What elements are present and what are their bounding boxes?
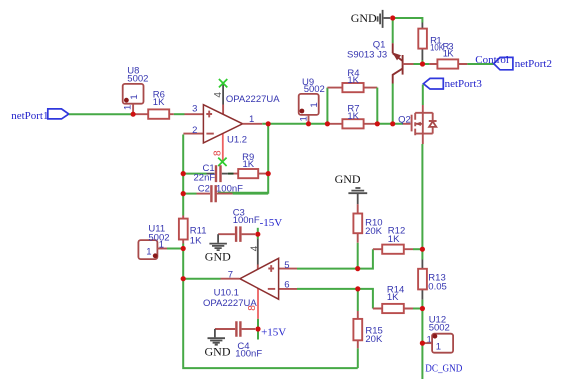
ground GND bottom (C4) — [205, 329, 231, 359]
test point U9 — [299, 77, 325, 122]
junction C1 left node — [181, 171, 186, 176]
svg-text:1K: 1K — [388, 234, 400, 245]
svg-text:Control: Control — [475, 54, 509, 66]
svg-text:5002: 5002 — [304, 84, 325, 95]
junction C3 -15V node — [255, 232, 260, 237]
svg-text:+15V: +15V — [261, 327, 286, 339]
ground GND top-left — [351, 10, 390, 28]
svg-text:-15V: -15V — [260, 217, 283, 229]
svg-text:20K: 20K — [365, 226, 383, 237]
wire Q1 base to R3 — [414, 63, 430, 65]
capacitor C4 — [215, 321, 262, 359]
wire pin2 feedback left — [182, 135, 184, 216]
resistor R12 — [358, 226, 423, 269]
junction U12 node — [420, 341, 425, 346]
transistor Q1 — [347, 40, 414, 84]
svg-text:1K: 1K — [190, 235, 202, 246]
svg-text:22nF: 22nF — [194, 173, 216, 184]
junction gate node — [390, 121, 395, 126]
port netPort1 — [11, 109, 69, 122]
pin U9.1 — [308, 115, 310, 124]
port netPort2 — [494, 57, 552, 69]
ground GND mid (C3) — [205, 234, 231, 264]
svg-text:3: 3 — [192, 103, 197, 114]
resistor R11 — [179, 216, 207, 247]
op-amp U10.1 — [203, 239, 297, 319]
junction C4 +15V node — [255, 326, 260, 331]
svg-text:1: 1 — [129, 94, 140, 99]
wire gate lead — [403, 123, 411, 125]
capacitor C2 — [183, 183, 268, 202]
svg-text:0.05: 0.05 — [428, 281, 447, 292]
wire pin8 to C4 node — [257, 319, 259, 340]
junction pin7 node — [181, 276, 186, 281]
pin U11.1 — [157, 248, 167, 250]
svg-text:100nF: 100nF — [235, 349, 262, 360]
svg-text:S9013 J3: S9013 J3 — [347, 49, 387, 60]
svg-text:1: 1 — [123, 105, 134, 110]
svg-text:6: 6 — [284, 280, 289, 291]
svg-text:100nF: 100nF — [216, 183, 243, 194]
svg-text:5002: 5002 — [429, 322, 450, 333]
junction GND top node — [390, 15, 395, 20]
wire right rail to U12 and DC_GND — [421, 309, 423, 380]
wire R6 to pin3 — [174, 113, 185, 115]
junction R13 R14 node — [420, 306, 425, 311]
resistor R13 — [418, 249, 447, 308]
ground GND right (R10) — [335, 172, 368, 205]
test point U12 — [427, 315, 454, 353]
junction output node — [266, 121, 271, 126]
wire pin7 — [183, 278, 220, 280]
svg-text:OPA2227UA: OPA2227UA — [203, 298, 257, 309]
svg-text:1K: 1K — [443, 48, 454, 59]
svg-text:4: 4 — [250, 245, 261, 251]
junction U8 node — [131, 112, 136, 117]
svg-text:5002: 5002 — [148, 233, 169, 244]
svg-text:GND: GND — [351, 11, 377, 25]
wire GND junction down to Q1 emitter — [392, 18, 394, 43]
wire stub -15V — [257, 228, 259, 239]
no-connect X pin4 U1.2 — [219, 79, 227, 87]
resistor R15 — [353, 289, 383, 368]
resistor R3 — [429, 42, 467, 69]
wire output of U1.2 — [243, 123, 263, 125]
junction R7 right — [375, 121, 380, 126]
pin U8.1 — [132, 104, 134, 115]
svg-text:5002: 5002 — [127, 73, 148, 84]
resistor R6 — [133, 90, 174, 119]
svg-text:DC_GND: DC_GND — [425, 363, 462, 375]
test point U8 — [123, 65, 149, 110]
no-connect X pin8 U1.2 — [218, 158, 226, 166]
svg-text:netPort3: netPort3 — [445, 78, 483, 90]
wire left rail down — [183, 244, 358, 369]
junction pin6 node — [355, 286, 360, 291]
svg-text:1: 1 — [146, 247, 151, 258]
svg-text:100nF: 100nF — [233, 215, 260, 226]
resistor R4 — [327, 68, 377, 124]
svg-text:1K: 1K — [347, 111, 359, 122]
svg-text:netPort2: netPort2 — [515, 58, 552, 70]
resistor R1 — [418, 23, 444, 61]
wire pin6 to node — [297, 288, 358, 290]
resistor R14 — [358, 284, 423, 313]
test point U11 — [138, 223, 169, 259]
resistor R10 — [353, 204, 382, 243]
svg-text:netPort1: netPort1 — [11, 110, 48, 122]
wire feedback right vertical — [218, 124, 268, 193]
wire Q2 source down right rail — [421, 144, 423, 249]
svg-text:GND: GND — [205, 250, 231, 264]
svg-text:1K: 1K — [243, 159, 255, 170]
transistor Q2 mosfet — [398, 105, 437, 144]
junction pin5 node — [355, 266, 360, 271]
svg-text:20K: 20K — [365, 334, 383, 345]
wire R3 to netPort2 — [467, 63, 493, 65]
capacitor C1 — [183, 163, 220, 184]
wire main to gate node — [377, 123, 403, 125]
junction Q1 base node — [420, 61, 425, 66]
wire netPort3 down to Q2 drain — [422, 85, 424, 106]
wire pin5 to node — [297, 268, 358, 270]
capacitor C3 — [218, 207, 260, 242]
svg-text:1K: 1K — [387, 292, 399, 303]
junction U11 node — [181, 246, 186, 251]
svg-text:1: 1 — [309, 102, 320, 107]
svg-text:1K: 1K — [153, 97, 165, 108]
svg-text:1: 1 — [436, 341, 441, 352]
junction C2 left node — [181, 191, 186, 196]
wire Q1 collector down — [392, 84, 394, 124]
port netPort3 — [423, 78, 482, 90]
junction R9 right node — [266, 171, 271, 176]
junction R12 R13 node — [420, 247, 425, 252]
svg-text:OPA2227UA: OPA2227UA — [226, 94, 280, 105]
junction U9 node — [306, 121, 311, 126]
op-amp U1.2 — [183, 84, 280, 161]
resistor R7 — [327, 104, 377, 129]
wire GND to R1 — [393, 18, 423, 23]
svg-text:2: 2 — [192, 125, 197, 136]
svg-text:C2: C2 — [198, 183, 210, 194]
resistor R9 — [222, 152, 267, 178]
svg-text:8: 8 — [212, 150, 223, 156]
pin U12.1 — [425, 342, 433, 344]
svg-text:1K: 1K — [347, 75, 359, 86]
junction R7 left — [325, 121, 330, 126]
svg-text:GND: GND — [205, 345, 231, 359]
svg-text:GND: GND — [335, 172, 361, 186]
svg-text:4: 4 — [213, 92, 224, 98]
wire R10 to pin5 node — [357, 243, 359, 269]
wire netPort1 to R6 junction — [69, 113, 133, 115]
svg-text:U1.2: U1.2 — [227, 135, 247, 146]
svg-text:5: 5 — [284, 260, 289, 271]
